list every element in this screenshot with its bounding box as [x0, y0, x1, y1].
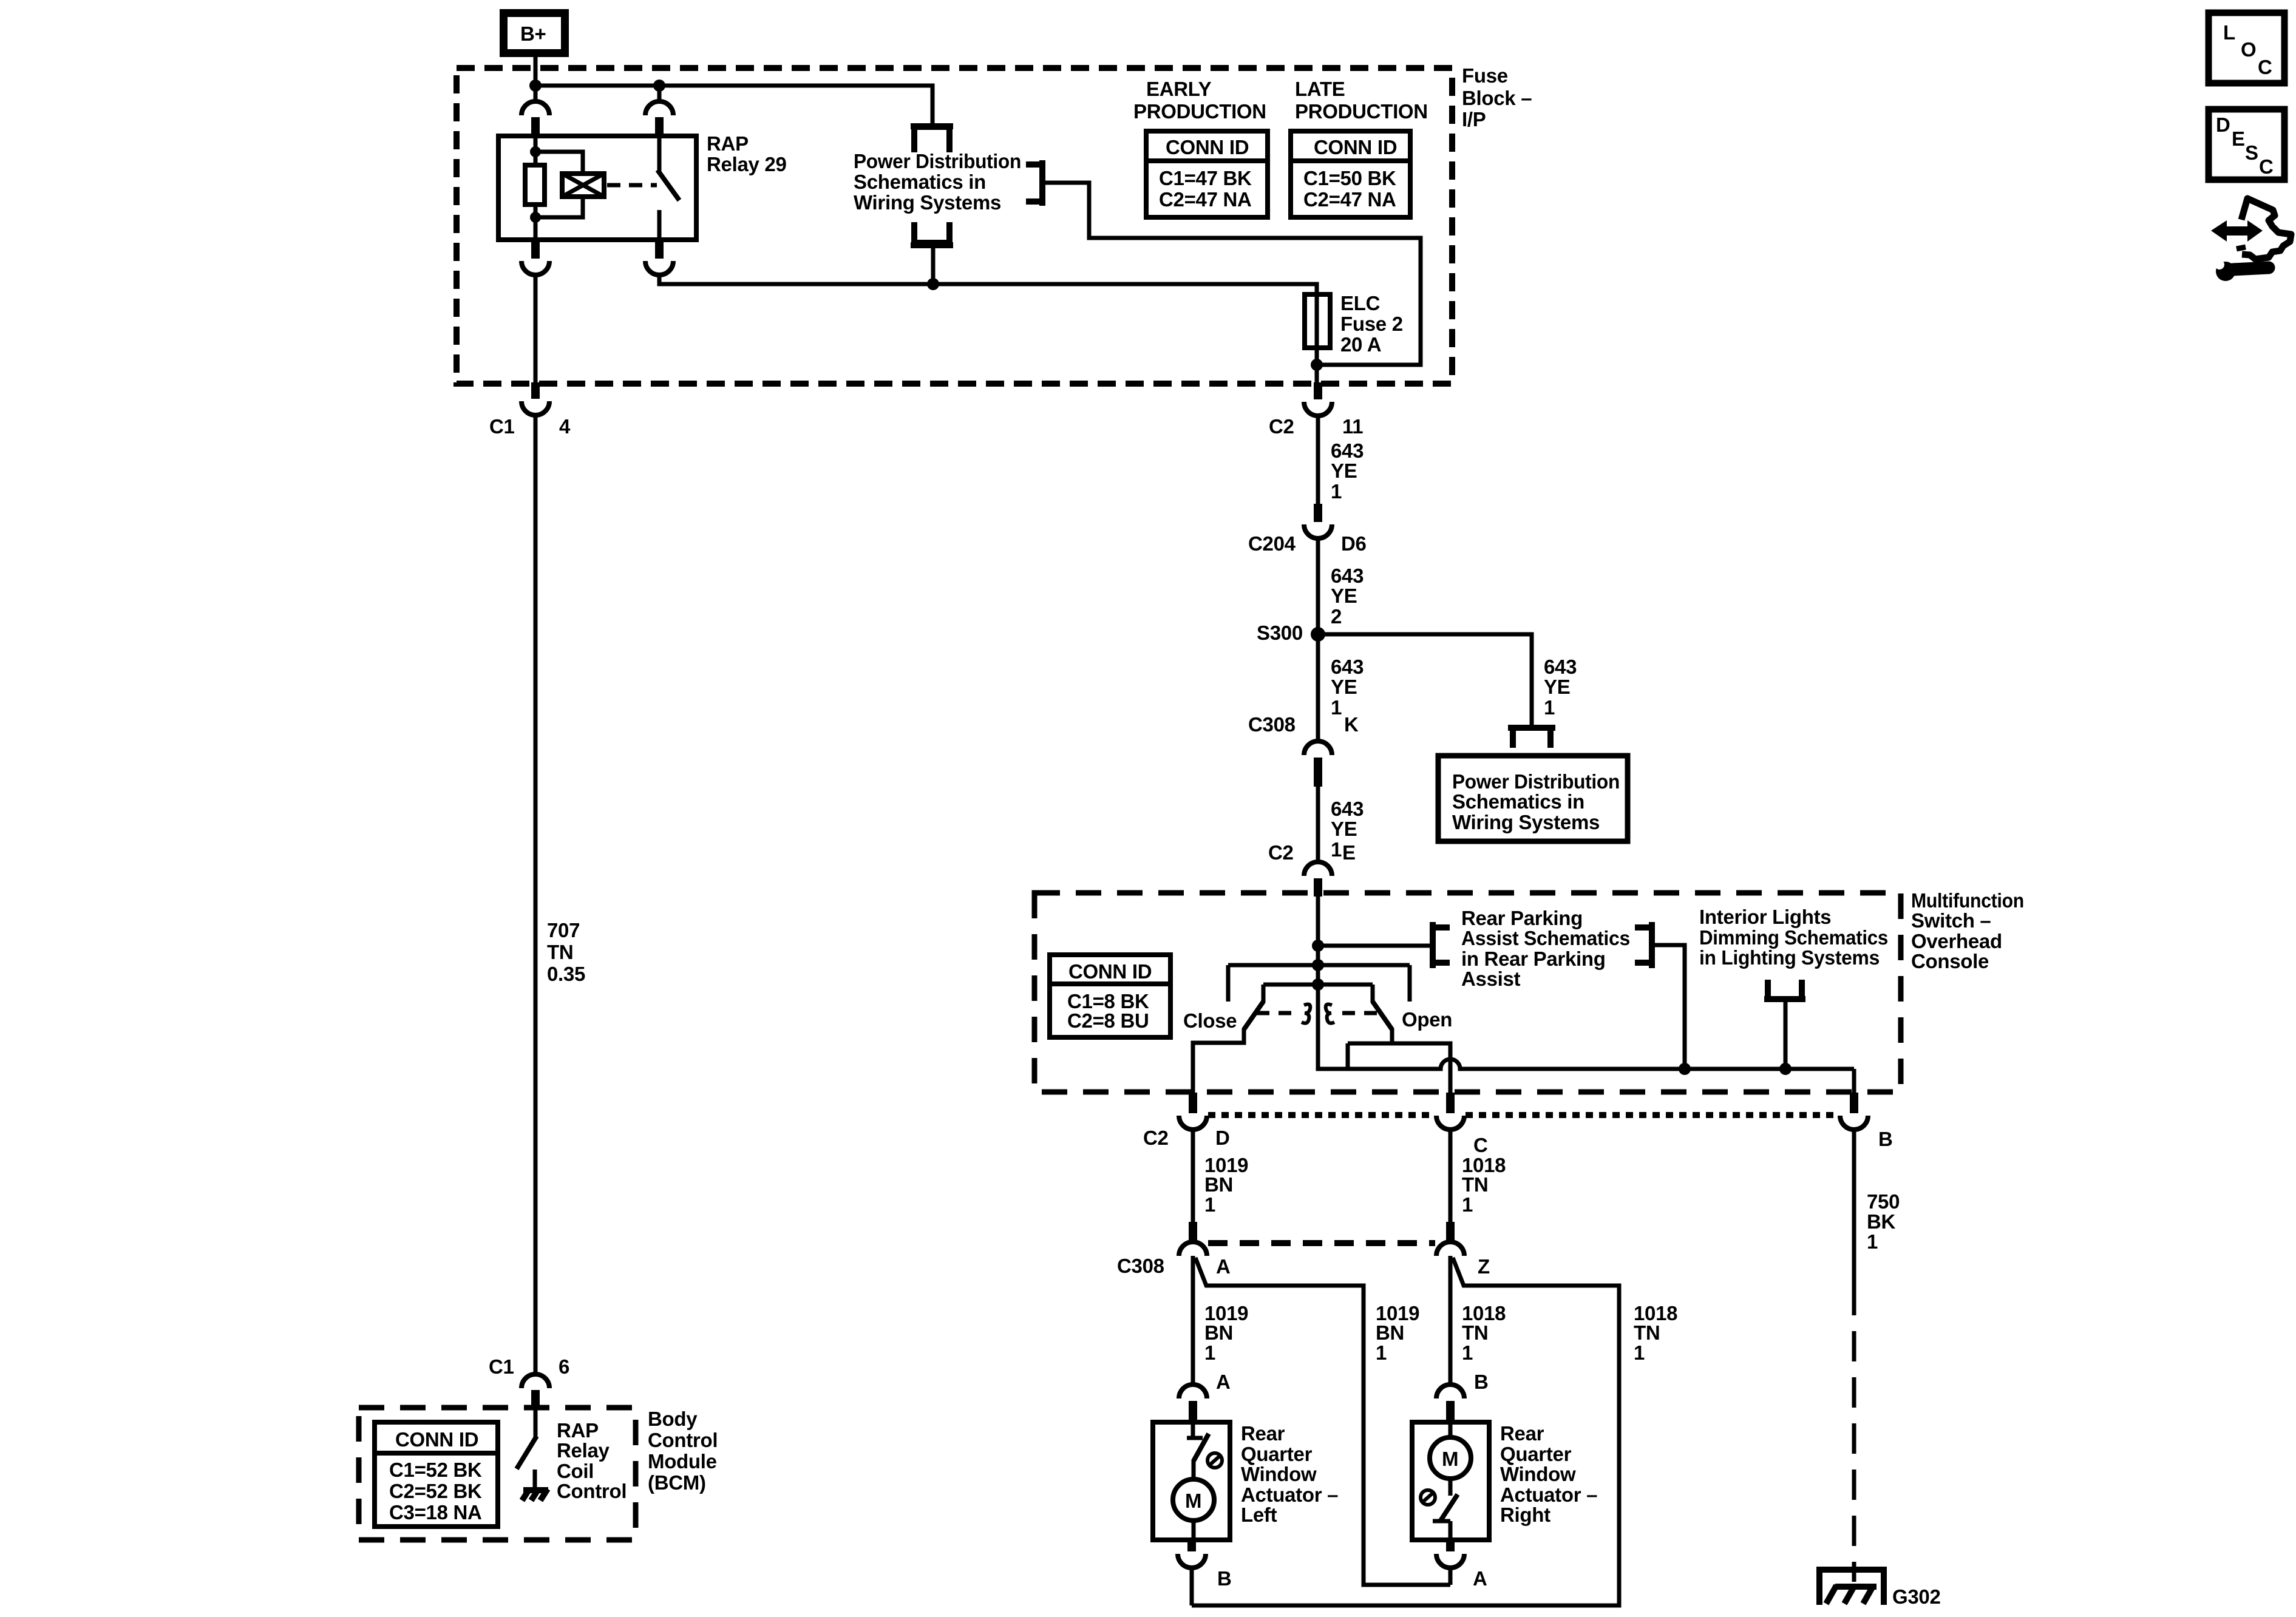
wire bus to B pin: [1852, 1069, 1856, 1093]
svg-text:1: 1: [1634, 1341, 1645, 1364]
svg-text:Overhead: Overhead: [1911, 930, 2002, 952]
svg-text:Module: Module: [648, 1450, 717, 1473]
wire dashed to G302: [1852, 1285, 1856, 1582]
svg-text:E: E: [2232, 127, 2245, 150]
svg-text:C: C: [2259, 155, 2274, 178]
connector actuator-left A arc: [1179, 1385, 1207, 1398]
node feed j1: [1312, 940, 1324, 952]
svg-text:Schematics in: Schematics in: [1452, 790, 1584, 813]
svg-text:YE: YE: [1544, 676, 1570, 698]
svg-text:YE: YE: [1331, 585, 1357, 607]
svg-text:0.35: 0.35: [547, 963, 585, 985]
svg-text:1: 1: [1331, 480, 1342, 503]
svg-text:Assist: Assist: [1461, 968, 1521, 990]
CONN ID table multifunction: [1050, 955, 1170, 1037]
svg-text:C2=8 BU: C2=8 BU: [1067, 1009, 1149, 1032]
wire C308-A branch to right actuator low side: [1195, 1258, 1450, 1585]
connector line (dotted): [1208, 1112, 1434, 1118]
wire C2-E feed into switch: [1316, 897, 1320, 985]
left actuator motor M: [1173, 1479, 1214, 1520]
svg-text:Window: Window: [1500, 1463, 1576, 1485]
connector C204 stub: [1314, 504, 1322, 522]
schematic marker upper (to Power Distribution): [914, 127, 949, 152]
svg-text:TN: TN: [1462, 1321, 1488, 1344]
text Rear Quarter Window Actuator - Right: [1500, 1422, 1597, 1526]
svg-text:C2: C2: [1269, 415, 1294, 438]
connector C204 arc: [1304, 524, 1332, 538]
ground (BCM internal): [522, 1470, 548, 1500]
svg-text:RAP: RAP: [557, 1419, 599, 1442]
svg-text:6: 6: [559, 1355, 569, 1378]
svg-text:YE: YE: [1331, 818, 1357, 840]
svg-text:CONN ID: CONN ID: [1314, 136, 1397, 158]
connector C2-E arc: [1304, 862, 1332, 876]
svg-text:EARLY: EARLY: [1146, 78, 1212, 100]
wire feed center down: [1318, 985, 1348, 1069]
connector relay pin 3 arc: [521, 261, 549, 275]
connector C1-6 stub: [531, 1390, 540, 1408]
wire 643 YE 1 to C2-E: [1316, 787, 1320, 862]
svg-text:Wiring Systems: Wiring Systems: [1452, 811, 1600, 833]
svg-text:Interior Lights: Interior Lights: [1699, 906, 1831, 928]
label 643 YE 1 (below S300): [1331, 656, 1364, 719]
connector C1-6 arc: [521, 1374, 549, 1388]
connector C2-C stub: [1446, 1093, 1455, 1113]
node bus-dimming tap: [1779, 1063, 1792, 1075]
ground G302: [1816, 1570, 1887, 1605]
svg-text:Switch –: Switch –: [1911, 909, 1991, 932]
text Power Distribution Schematics in Wiring Systems (fuse block): [854, 150, 1021, 214]
wire C308-A down to actuator: [1191, 1256, 1195, 1385]
linkage curl right: [1326, 1004, 1334, 1023]
svg-text:11: 11: [1342, 415, 1363, 438]
svg-text:in Rear Parking: in Rear Parking: [1461, 947, 1606, 970]
svg-text:D: D: [2216, 114, 2230, 136]
svg-text:643: 643: [1544, 656, 1577, 678]
node fuse output junction: [1311, 359, 1323, 371]
svg-text:B: B: [1217, 1567, 1232, 1590]
wire feed riser to open bus: [1346, 1043, 1350, 1069]
battery feed symbol B+: [500, 9, 569, 57]
svg-text:BN: BN: [1204, 1173, 1233, 1196]
connector C2-D arc: [1179, 1116, 1207, 1130]
svg-text:I/P: I/P: [1462, 108, 1486, 131]
connector actuator-right B stub: [1446, 1401, 1455, 1422]
fuse ELC Fuse 2 20A: [1305, 292, 1403, 365]
svg-text:C2: C2: [1268, 841, 1294, 864]
splice S300: [1311, 627, 1325, 642]
svg-text:TN: TN: [1634, 1321, 1660, 1344]
svg-text:YE: YE: [1331, 676, 1357, 698]
connector actuator-right B arc: [1436, 1385, 1464, 1398]
svg-text:C2=47 NA: C2=47 NA: [1303, 188, 1396, 211]
connector C308 dashed tie line: [1208, 1240, 1435, 1246]
resistor (relay): [525, 165, 545, 205]
svg-text:Window: Window: [1241, 1463, 1317, 1485]
wire relay output to fuse: [659, 275, 1317, 294]
wire close output: [1193, 1028, 1244, 1093]
wire marker to relay output bus: [931, 248, 936, 284]
connector C308-K stub: [1314, 758, 1322, 787]
svg-text:Body: Body: [648, 1408, 698, 1430]
svg-text:2: 2: [1331, 605, 1342, 628]
linkage dashes coil to contact: [607, 183, 657, 188]
svg-text:C2=52 BK: C2=52 BK: [389, 1480, 482, 1502]
svg-text:C1: C1: [489, 1355, 514, 1378]
svg-text:20 A: 20 A: [1340, 333, 1381, 356]
linkage dashes open side: [1342, 1011, 1381, 1015]
svg-text:Right: Right: [1500, 1503, 1550, 1526]
svg-text:Assist Schematics: Assist Schematics: [1461, 927, 1630, 949]
svg-text:M: M: [1185, 1490, 1201, 1512]
svg-text:B: B: [1878, 1128, 1893, 1150]
text Rear Quarter Window Actuator - Left: [1241, 1422, 1338, 1526]
svg-text:Quarter: Quarter: [1500, 1443, 1572, 1465]
connector relay pin 1 stub: [531, 117, 540, 136]
wire outer contact rail: [1228, 963, 1410, 968]
connector actuator-left B arc: [1178, 1554, 1206, 1568]
svg-text:643: 643: [1331, 798, 1364, 820]
connector C2-B arc: [1840, 1116, 1868, 1130]
DESC box: [2209, 109, 2284, 180]
connector relay pin 2 stub: [655, 117, 664, 136]
svg-text:C1=50 BK: C1=50 BK: [1303, 167, 1396, 189]
wire inner pivot rail: [1263, 983, 1373, 987]
wire 750 BK 1 (B to ground): [1852, 1130, 1856, 1285]
svg-text:Wiring Systems: Wiring Systems: [854, 191, 1001, 214]
wire B+ down into fuse block: [534, 57, 538, 86]
svg-text:707: 707: [547, 919, 580, 941]
svg-text:PRODUCTION: PRODUCTION: [1133, 100, 1266, 123]
svg-text:1: 1: [1867, 1230, 1878, 1253]
svg-text:C1=52 BK: C1=52 BK: [389, 1459, 482, 1481]
svg-text:Dimming Schematics: Dimming Schematics: [1699, 926, 1888, 949]
connector C2-E stub: [1314, 878, 1322, 897]
connector C2-11 stub: [1314, 382, 1322, 399]
connector C308-K arc: [1304, 741, 1332, 755]
svg-text:CONN ID: CONN ID: [1166, 136, 1249, 158]
svg-text:TN: TN: [547, 941, 573, 963]
svg-text:1: 1: [1331, 696, 1342, 719]
switch blade Close: [1244, 1002, 1263, 1029]
node j2: [1312, 959, 1324, 971]
connector relay pin 5 stub (switch out): [655, 240, 664, 259]
wire 643 YE 2: [1316, 538, 1320, 634]
BCM dashed box: [359, 1408, 636, 1540]
connector C2-C arc: [1436, 1116, 1464, 1130]
node bracket tap on relay output: [927, 278, 939, 290]
svg-text:BN: BN: [1376, 1321, 1404, 1344]
svg-text:BN: BN: [1204, 1321, 1233, 1344]
svg-text:K: K: [1344, 713, 1359, 736]
svg-text:ELC: ELC: [1340, 292, 1380, 314]
schematic marker ] rear parking: [1649, 922, 1655, 968]
schematic marker [ rear parking: [1430, 922, 1436, 968]
svg-text:Control: Control: [648, 1429, 718, 1451]
svg-text:TN: TN: [1462, 1173, 1488, 1196]
svg-text:1: 1: [1376, 1341, 1387, 1364]
connector actuator-right A arc: [1436, 1554, 1464, 1568]
schematic marker above power distribution box: [1508, 725, 1555, 731]
svg-text:B+: B+: [520, 22, 546, 45]
svg-text:in Lighting Systems: in Lighting Systems: [1699, 946, 1880, 969]
wire 643 YE 1: [1316, 416, 1320, 504]
wire actuator-right A down: [1449, 1568, 1453, 1585]
CONN ID table early: [1146, 131, 1268, 217]
node: B+ junction: [529, 80, 542, 92]
connector C308-A stub: [1189, 1222, 1197, 1240]
svg-text:Relay: Relay: [557, 1439, 610, 1462]
CONN ID table late: [1291, 131, 1410, 217]
connector C2-D stub: [1189, 1093, 1197, 1113]
svg-text:Multifunction: Multifunction: [1911, 889, 2024, 912]
wire S300 branch to power distribution: [1318, 634, 1532, 725]
svg-text:A: A: [1473, 1567, 1487, 1590]
svg-text:Schematics in: Schematics in: [854, 171, 986, 193]
svg-text:Quarter: Quarter: [1241, 1443, 1313, 1465]
svg-text:1: 1: [1462, 1341, 1473, 1364]
label 707 TN 0.35: [547, 919, 585, 985]
label 643 YE 1 (branch): [1544, 656, 1577, 719]
svg-text:E: E: [1342, 841, 1356, 864]
wire from marker to fuse bottom loop: [1044, 183, 1421, 365]
svg-text:4: 4: [559, 415, 571, 438]
svg-text:YE: YE: [1331, 459, 1357, 482]
wire C308-Z down to actuator: [1449, 1256, 1453, 1385]
connector C2-11 arc: [1304, 402, 1332, 416]
right actuator switch: [1441, 1494, 1458, 1520]
connector actuator-left A stub: [1189, 1401, 1197, 1422]
connector relay pin 5 arc: [645, 261, 673, 275]
svg-text:D6: D6: [1341, 532, 1367, 555]
wire C308-Z branch to left actuator low side: [1192, 1258, 1619, 1605]
icon arrow: [2211, 220, 2263, 242]
connector C1-4 arc: [521, 401, 549, 415]
svg-text:1: 1: [1331, 838, 1342, 861]
svg-text:C308: C308: [1248, 713, 1296, 736]
svg-text:CONN ID: CONN ID: [1068, 960, 1152, 983]
connector actuator-left B stub: [1187, 1540, 1196, 1551]
connector C308-Z arc: [1436, 1242, 1464, 1256]
svg-text:C1: C1: [489, 415, 515, 438]
svg-text:Power Distribution: Power Distribution: [1452, 770, 1620, 793]
svg-text:C2: C2: [1143, 1127, 1169, 1149]
BCM driver switch: [534, 1408, 538, 1437]
svg-text:1: 1: [1204, 1193, 1215, 1216]
label Fuse Block - I/P: [1462, 64, 1532, 131]
switch blade Open: [1373, 1002, 1392, 1029]
connector C308-Z stub: [1446, 1222, 1455, 1240]
svg-text:Close: Close: [1183, 1009, 1237, 1032]
svg-text:643: 643: [1331, 564, 1364, 587]
connector actuator-right A stub: [1446, 1540, 1455, 1551]
node coil top: [530, 146, 541, 157]
svg-text:A: A: [1216, 1255, 1231, 1278]
right actuator motor M: [1449, 1422, 1453, 1437]
right actuator box: [1412, 1422, 1489, 1540]
Multifunction Switch dashed box: [1034, 893, 1901, 1092]
CONN ID table BCM: [375, 1422, 498, 1527]
svg-text:C3=18 NA: C3=18 NA: [389, 1501, 482, 1524]
schematic marker interior lights: [1768, 980, 1802, 997]
connector C1-4 stub: [531, 382, 540, 399]
schematic marker right of text: [1026, 164, 1042, 202]
wire marker to bus: [1784, 1002, 1788, 1069]
wire fuse output down: [1315, 365, 1319, 382]
node bus-parking tap: [1679, 1063, 1691, 1075]
svg-text:L: L: [2223, 21, 2235, 44]
svg-text:G302: G302: [1892, 1585, 1941, 1608]
svg-text:Rear Parking: Rear Parking: [1461, 907, 1583, 929]
svg-text:RAP: RAP: [707, 132, 749, 155]
svg-text:LATE: LATE: [1295, 78, 1345, 100]
svg-text:S300: S300: [1257, 622, 1303, 644]
svg-text:1: 1: [1462, 1193, 1473, 1216]
svg-text:D: D: [1215, 1127, 1230, 1149]
wire S300 down: [1316, 634, 1320, 741]
svg-text:BK: BK: [1867, 1210, 1896, 1233]
wire to relay coil: [535, 152, 583, 174]
svg-text:643: 643: [1331, 656, 1364, 678]
svg-text:Rear: Rear: [1500, 1422, 1544, 1445]
wire lights bus with hop: [1348, 1059, 1854, 1069]
svg-text:PRODUCTION: PRODUCTION: [1295, 100, 1428, 123]
svg-text:Actuator –: Actuator –: [1500, 1483, 1597, 1506]
svg-text:B: B: [1474, 1371, 1489, 1393]
Fuse Block - I/P dashed box: [457, 68, 1452, 384]
svg-text:Power Distribution: Power Distribution: [854, 150, 1021, 172]
left actuator switch: [1191, 1422, 1195, 1439]
connector relay pin 3 stub (coil gnd): [531, 240, 540, 259]
text RAP Relay Coil Control: [557, 1419, 627, 1502]
svg-text:Open: Open: [1402, 1008, 1452, 1031]
svg-text:C: C: [1473, 1134, 1488, 1156]
svg-text:Console: Console: [1911, 950, 1989, 972]
linkage dashes close side: [1257, 1011, 1294, 1015]
svg-text:Fuse 2: Fuse 2: [1340, 313, 1403, 335]
svg-text:C1=47 BK: C1=47 BK: [1159, 167, 1252, 189]
connector C2-B stub: [1850, 1093, 1858, 1113]
svg-text:1: 1: [1544, 696, 1555, 719]
svg-text:S: S: [2245, 141, 2258, 164]
svg-text:C2=47 NA: C2=47 NA: [1159, 188, 1252, 211]
svg-text:CONN ID: CONN ID: [395, 1428, 478, 1451]
icon harness claw: [2241, 198, 2291, 259]
text Interior Lights Dimming Schematics in Lighting Systems: [1699, 906, 1888, 969]
connector C308-A arc: [1179, 1242, 1207, 1256]
svg-text:750: 750: [1867, 1190, 1900, 1213]
Power Distribution Schematics box: [1438, 756, 1628, 841]
relay switch contact: [657, 136, 662, 171]
svg-text:643: 643: [1331, 439, 1364, 462]
svg-text:Rear: Rear: [1241, 1422, 1285, 1445]
LOC box: [2209, 13, 2284, 83]
relay RAP Relay 29 box: [498, 136, 696, 240]
text Body Control Module (BCM): [648, 1408, 718, 1494]
svg-text:Actuator –: Actuator –: [1241, 1483, 1338, 1506]
svg-text:C204: C204: [1248, 532, 1296, 555]
wire coil feed inside relay: [534, 136, 538, 165]
svg-text:1: 1: [1204, 1341, 1215, 1364]
wire actuator-left B down: [1190, 1568, 1194, 1605]
svg-text:C: C: [2258, 56, 2272, 78]
connector relay pin 1 (coil feed) arc: [521, 101, 549, 115]
node: relay switch feed junction: [653, 80, 665, 92]
svg-text:O: O: [2241, 38, 2256, 61]
wire 707 TN down to BCM: [534, 415, 538, 1374]
node coil bottom: [530, 212, 541, 223]
node j3: [1312, 978, 1324, 991]
svg-text:Control: Control: [557, 1480, 627, 1502]
text Rear Parking Assist Schematics in Rear Parking Assist: [1461, 907, 1630, 990]
wire marker to lights bus: [1655, 945, 1685, 1069]
wire 1018 TN 1 (C to C308): [1449, 1130, 1453, 1222]
svg-text:M: M: [1442, 1448, 1458, 1470]
icon wrench: [2215, 260, 2269, 281]
svg-text:Coil: Coil: [557, 1460, 594, 1482]
svg-text:Z: Z: [1478, 1255, 1490, 1278]
svg-text:Fuse: Fuse: [1462, 64, 1508, 87]
wire j1 to rear parking marker: [1318, 944, 1431, 948]
wire open output: [1348, 1028, 1392, 1043]
wire 1019 BN 1 (D to C308): [1191, 1130, 1195, 1222]
left actuator box: [1153, 1422, 1230, 1540]
svg-text:(BCM): (BCM): [648, 1471, 706, 1494]
svg-text:Left: Left: [1241, 1503, 1277, 1526]
schematic marker lower: [914, 222, 949, 243]
linkage curl left: [1302, 1004, 1310, 1023]
wire relay pin3 down to C1-4: [534, 275, 538, 382]
connector relay pin 2 arc: [645, 101, 673, 115]
wire: top bus from B+ junction to corner: [535, 86, 932, 124]
svg-text:A: A: [1216, 1371, 1231, 1393]
text Multifunction Switch - Overhead Console: [1911, 889, 2024, 972]
svg-text:Relay 29: Relay 29: [707, 153, 787, 175]
svg-text:Block –: Block –: [1462, 87, 1532, 109]
svg-text:C308: C308: [1117, 1255, 1164, 1277]
relay coil (box with X): [562, 174, 604, 197]
